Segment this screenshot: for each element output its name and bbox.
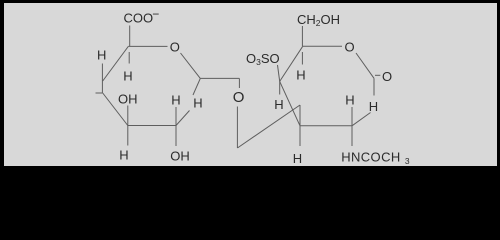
wire: C4 continuation stub to next unit bbox=[96, 92, 103, 94]
wire: C5 to ring O bond (left ring top) bbox=[128, 45, 167, 47]
wire: C4'-C3' bond (right ring) bbox=[280, 81, 300, 125]
wire: C5-H stub (left ring) bbox=[128, 52, 130, 64]
svg-text:O: O bbox=[345, 40, 355, 55]
wire: C1'-H stub below bbox=[373, 78, 375, 95]
svg-text:OH: OH bbox=[118, 91, 138, 106]
svg-text:HNCOCH: HNCOCH bbox=[341, 149, 400, 164]
wire: C2-OH bond below (left ring) bbox=[175, 126, 177, 147]
wire: dash bond before right O bbox=[375, 74, 380, 76]
svg-text:O: O bbox=[233, 89, 245, 106]
svg-text:H: H bbox=[296, 68, 305, 83]
wire: C4'-C5' bond (right ring) bbox=[280, 46, 303, 81]
wire: C5' to ring O' bond (right ring top) bbox=[303, 45, 342, 47]
svg-text:H: H bbox=[369, 99, 378, 114]
svg-text:−: − bbox=[152, 7, 159, 21]
wire: CH2OH bond to C5' bbox=[301, 26, 303, 46]
svg-text:H: H bbox=[345, 93, 354, 108]
light panel background bbox=[4, 3, 497, 166]
wire: bridge long diagonal to right ring bbox=[237, 105, 300, 148]
svg-text:OH: OH bbox=[170, 149, 190, 164]
svg-text:O: O bbox=[170, 39, 180, 54]
wire: bridge elbow into C3' bbox=[299, 105, 301, 126]
wire: C2'-N bond below bbox=[351, 126, 353, 146]
wire: COO- to C5 bond bbox=[129, 26, 131, 47]
wire: bridge O vertical below bbox=[236, 107, 238, 149]
wire: C2-H stub above (left ring) bbox=[175, 107, 177, 126]
wire: C3'-H bond below bbox=[299, 126, 301, 146]
wire: C3-H bond below (left ring) bbox=[127, 126, 129, 146]
svg-text:H: H bbox=[171, 92, 180, 107]
wire: C2'-C3' bottom bond (right ring) bbox=[300, 125, 352, 127]
wire: C4 vertical (H bond + elbow) bbox=[101, 64, 103, 94]
svg-text:O: O bbox=[382, 69, 392, 84]
svg-text:O3SO: O3SO bbox=[246, 51, 280, 67]
wire: C2-C3 bottom bond (left ring) bbox=[128, 125, 176, 127]
wire: C2'-H stub above bbox=[351, 107, 353, 126]
wire: C1-C2 bond upper segment (left ring) bbox=[193, 78, 200, 95]
wire: C3-OH bond (left ring) bbox=[127, 106, 129, 126]
svg-text:H: H bbox=[293, 151, 302, 166]
wire: C1 to glycosidic bridge horizontal bbox=[200, 77, 239, 79]
wire: C1'-C2' bond lower segment bbox=[352, 113, 371, 126]
svg-text:H: H bbox=[97, 48, 106, 63]
svg-text:H: H bbox=[193, 96, 202, 111]
svg-text:COO: COO bbox=[124, 11, 154, 26]
svg-text:H: H bbox=[119, 148, 128, 163]
svg-text:H: H bbox=[274, 97, 283, 112]
wire: ring O to C1 bond (left ring) bbox=[181, 53, 201, 78]
wire: C4'-O3SO bond bbox=[278, 65, 280, 81]
wire: C4-C5 bond (left ring) bbox=[103, 46, 129, 81]
wire: bridge vertical down to O bbox=[238, 78, 240, 88]
svg-text:H: H bbox=[123, 68, 132, 83]
wire: C4'-H stub below bbox=[279, 81, 281, 94]
wire: C1-C2 bond lower segment (left ring) bbox=[176, 111, 190, 126]
wire: C5'-H stub bbox=[301, 52, 303, 65]
svg-text:3: 3 bbox=[405, 156, 410, 166]
black outer frame bbox=[0, 0, 500, 174]
wire: ring O' to C1' bond (right ring) bbox=[356, 53, 374, 78]
wire: C3-C4 bond (left ring) bbox=[103, 93, 128, 126]
